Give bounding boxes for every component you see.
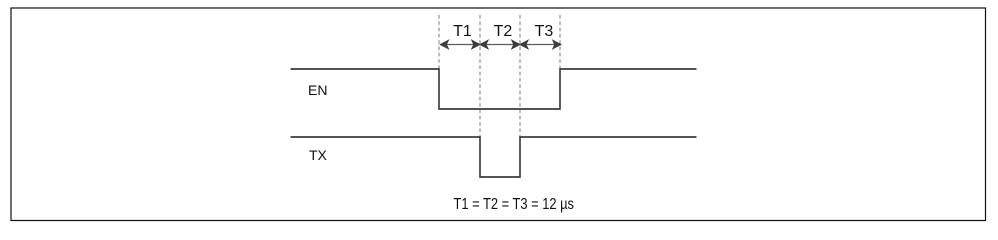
svg-text:TX: TX <box>309 147 328 163</box>
arrowhead T3 right <box>552 39 562 50</box>
svg-text:T2: T2 <box>494 23 513 40</box>
dashed marker line t0 (x=439) <box>438 15 440 69</box>
svg-text:EN: EN <box>308 82 327 98</box>
arrowhead T3 left <box>519 39 529 50</box>
svg-text:T3: T3 <box>535 23 554 40</box>
arrowhead T1 left <box>439 39 449 50</box>
arrowhead T2 right <box>511 39 521 50</box>
TX waveform wire <box>291 137 697 177</box>
EN waveform wire <box>291 69 697 109</box>
arrow shaft T1-T3 <box>440 44 561 46</box>
dashed marker line t2 (x=520) <box>519 15 521 137</box>
dashed marker line t1 (x=480) <box>479 15 481 137</box>
dashed marker line t3 (x=560) <box>559 15 561 69</box>
svg-text:T1: T1 <box>453 23 472 40</box>
arrowhead T2 left <box>479 39 489 50</box>
svg-text:T1 = T2 = T3 = 12 µs: T1 = T2 = T3 = 12 µs <box>454 196 575 213</box>
arrowhead T1 right <box>471 39 481 50</box>
